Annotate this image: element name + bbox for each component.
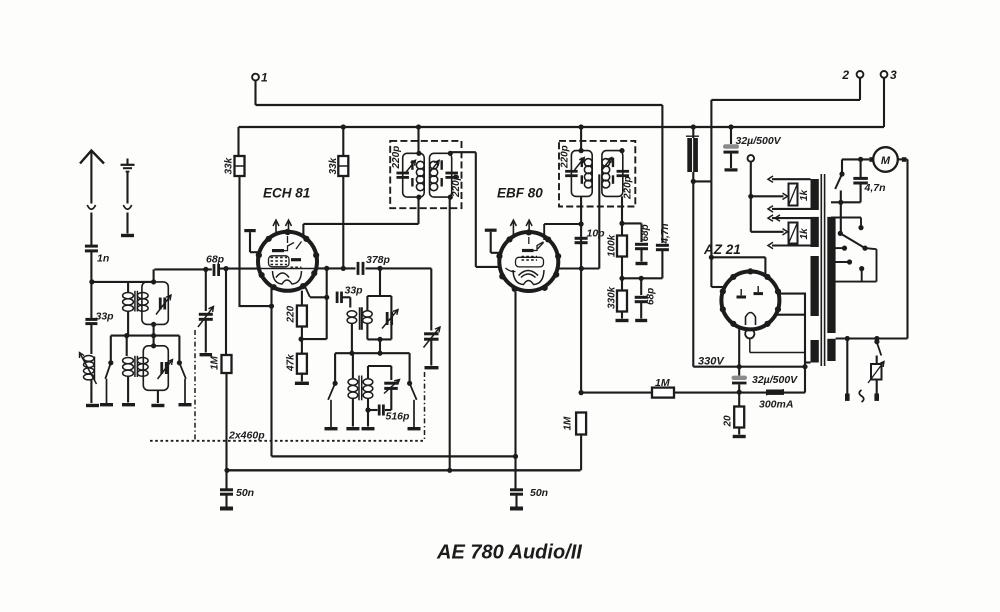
svg-text:1M: 1M (655, 377, 670, 389)
svg-text:330V: 330V (698, 356, 725, 368)
svg-text:516p: 516p (386, 411, 411, 423)
svg-text:32µ/500V: 32µ/500V (752, 374, 798, 386)
svg-text:220p: 220p (623, 176, 634, 200)
svg-text:33p: 33p (345, 285, 364, 297)
svg-text:EBF 80: EBF 80 (497, 186, 543, 201)
svg-text:M: M (881, 155, 891, 167)
svg-text:20: 20 (723, 415, 734, 428)
svg-text:10p: 10p (587, 228, 606, 240)
svg-text:378p: 378p (366, 254, 391, 266)
svg-text:47k: 47k (286, 354, 297, 372)
svg-text:220p: 220p (391, 146, 402, 170)
svg-text:68p: 68p (206, 254, 225, 266)
svg-text:50n: 50n (530, 487, 548, 499)
svg-text:1: 1 (261, 71, 268, 85)
svg-text:33p: 33p (96, 311, 115, 323)
svg-text:ECH 81: ECH 81 (263, 186, 310, 201)
svg-text:1n: 1n (97, 253, 109, 265)
svg-text:68p: 68p (646, 288, 657, 305)
svg-text:4,7n: 4,7n (864, 182, 886, 194)
svg-text:220p: 220p (560, 145, 571, 169)
svg-text:1k: 1k (799, 228, 810, 240)
svg-text:1k: 1k (799, 189, 810, 201)
svg-text:AE 780 Audio/II: AE 780 Audio/II (436, 542, 582, 564)
svg-text:33k: 33k (328, 157, 339, 174)
svg-text:1M: 1M (210, 355, 221, 370)
svg-text:220p: 220p (451, 174, 462, 198)
svg-text:2: 2 (841, 68, 849, 82)
svg-text:3: 3 (890, 68, 897, 82)
svg-text:1M: 1M (563, 416, 574, 431)
svg-text:33k: 33k (224, 157, 235, 174)
svg-text:220: 220 (286, 305, 297, 323)
svg-text:AZ 21: AZ 21 (703, 242, 741, 257)
svg-text:100k: 100k (607, 234, 618, 257)
svg-text:68p: 68p (640, 224, 651, 241)
svg-text:330k: 330k (607, 286, 618, 309)
svg-text:4,7n: 4,7n (660, 223, 671, 244)
svg-text:50n: 50n (236, 487, 254, 499)
svg-text:2x460p: 2x460p (228, 430, 265, 442)
svg-text:300mA: 300mA (759, 399, 793, 411)
svg-text:32µ/500V: 32µ/500V (736, 135, 782, 147)
